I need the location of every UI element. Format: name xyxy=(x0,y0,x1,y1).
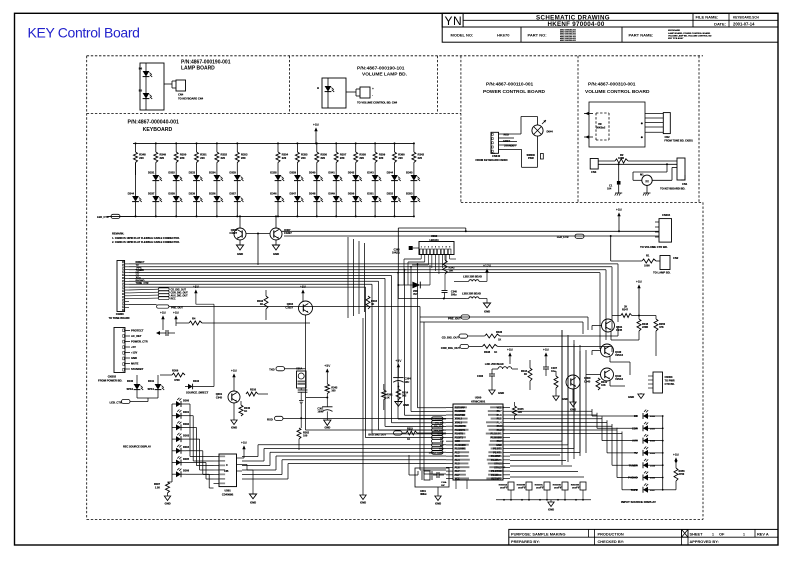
svg-text:GND: GND xyxy=(273,252,279,256)
connector CN201 from tone bd xyxy=(663,113,670,134)
svg-text:R338: R338 xyxy=(484,351,491,354)
svg-text:220: 220 xyxy=(418,156,423,160)
ground mid bundle xyxy=(362,318,364,495)
svg-text:CN2: CN2 xyxy=(673,256,679,260)
svg-text:220: 220 xyxy=(359,156,364,160)
matrix column R349 xyxy=(155,142,157,144)
U300 pin L12 xyxy=(446,448,453,450)
ground Q301 xyxy=(233,403,235,420)
svg-text:P3.7: P3.7 xyxy=(455,474,461,477)
svg-text:100u: 100u xyxy=(451,294,457,297)
svg-text:FROM POWER BD.: FROM POWER BD. xyxy=(98,379,122,383)
capacitor C360 xyxy=(409,246,413,250)
svg-text:TO LAMP BD.: TO LAMP BD. xyxy=(653,271,671,275)
svg-text:GND: GND xyxy=(325,426,331,430)
svg-text:FROM TONE BD. CN201: FROM TONE BD. CN201 xyxy=(664,140,693,143)
svg-text:Q301: Q301 xyxy=(216,392,223,396)
svg-text:1: 1 xyxy=(712,532,714,536)
rec display left rail xyxy=(171,404,173,482)
svg-text:3: 3 xyxy=(428,247,429,249)
svg-text:P/N:4867-000110-001: P/N:4867-000110-001 xyxy=(486,82,534,88)
svg-text:FROM KEYBOARD CN300: FROM KEYBOARD CN300 xyxy=(476,158,509,162)
svg-text:L303 25R BEAD: L303 25R BEAD xyxy=(462,292,481,295)
svg-text:P3.7: P3.7 xyxy=(497,440,503,443)
LED D301 rec display xyxy=(172,415,176,417)
matrix column R358 xyxy=(355,142,357,144)
LED D328 xyxy=(275,175,282,181)
transistor Q307 xyxy=(270,228,282,240)
svg-text:GND: GND xyxy=(455,440,461,443)
connector CN3 volume left xyxy=(590,159,598,170)
bus wires right of U300 xyxy=(510,410,592,412)
svg-text:P3.1/TXD: P3.1/TXD xyxy=(455,414,466,417)
svg-text:L302 25R BEAD: L302 25R BEAD xyxy=(463,276,482,279)
vertical bundle mid trio xyxy=(561,330,563,465)
U300 pin R14 xyxy=(503,455,510,457)
LED D329 xyxy=(294,175,301,181)
CN302 pin MUTE xyxy=(125,363,130,365)
svg-text:-: - xyxy=(372,93,373,97)
svg-text:AT89C2051: AT89C2051 xyxy=(471,399,486,403)
svg-text:1K: 1K xyxy=(260,303,263,306)
U300 pin R9 xyxy=(503,436,510,438)
title block bottom xyxy=(509,529,778,545)
svg-text:+5V: +5V xyxy=(160,311,167,315)
svg-text:+5V: +5V xyxy=(173,311,180,315)
svg-text:1. CN300 IS 16PIN FLAT FLEXIBL: 1. CN300 IS 16PIN FLAT FLEXIBLE CABLE CO… xyxy=(112,237,180,240)
svg-text:1K: 1K xyxy=(371,303,374,306)
U300 pin L17 xyxy=(446,466,453,468)
svg-text:CDR_DIG_OUT: CDR_DIG_OUT xyxy=(441,346,461,350)
svg-text:M1: M1 xyxy=(640,173,644,176)
wire crystal to U300 xyxy=(417,471,419,475)
LED D352 xyxy=(391,196,398,202)
title block top xyxy=(442,13,778,42)
CN300 pin stubs xyxy=(125,263,129,265)
transistor Q300 xyxy=(566,375,580,389)
IC U301 CD4069B xyxy=(219,454,237,487)
file name box xyxy=(692,13,694,27)
matrix column R354 xyxy=(277,142,279,144)
resistor R306 xyxy=(172,373,185,377)
svg-text:D337: D337 xyxy=(148,191,155,195)
svg-text:REMARK:: REMARK: xyxy=(112,232,124,236)
U300 pin L3 xyxy=(446,414,453,416)
svg-text:CD_DIG_OUT: CD_DIG_OUT xyxy=(442,336,460,340)
svg-text:OF: OF xyxy=(719,531,725,536)
svg-text:CN4: CN4 xyxy=(178,93,184,97)
svg-text:P1.1/AIN1: P1.1/AIN1 xyxy=(491,433,503,436)
svg-text:1K: 1K xyxy=(524,373,527,376)
pot dashed box VR xyxy=(595,113,597,140)
CN302 pin POWER_CTR xyxy=(125,341,130,343)
svg-text:CN303: CN303 xyxy=(665,376,673,379)
transistor Q306 xyxy=(234,228,246,240)
wires power connector xyxy=(499,133,522,135)
U300 pin L20 xyxy=(446,478,453,480)
resistor R336 xyxy=(485,334,500,338)
svg-text:VOLUME CONTROL BOARD: VOLUME CONTROL BOARD xyxy=(585,89,650,95)
U300 pin R11 xyxy=(503,444,510,446)
U300 pin L6 xyxy=(446,425,453,427)
U300 pin R5 xyxy=(503,421,510,423)
wires U302 pins down xyxy=(420,255,422,260)
svg-text:2001-07-14: 2001-07-14 xyxy=(733,22,755,27)
LED D347 xyxy=(294,196,301,202)
U300 pin L14 xyxy=(446,455,453,457)
connector CN303 to pwr ctr bd xyxy=(653,372,663,393)
capacitor C30B xyxy=(436,472,438,478)
svg-text:+5V: +5V xyxy=(673,453,680,457)
wire matrix to Q307 xyxy=(275,216,277,228)
svg-text:TO PWR: TO PWR xyxy=(665,380,675,383)
svg-text:1: 1 xyxy=(743,532,745,536)
svg-text:D327: D327 xyxy=(230,191,237,195)
LED D353 xyxy=(411,196,418,202)
svg-text:DIGIT 2: DIGIT 2 xyxy=(518,488,526,490)
svg-text:TONE_CTR: TONE_CTR xyxy=(136,282,149,285)
matrix column R342 xyxy=(413,142,415,144)
lamp D644 xyxy=(532,125,543,136)
bus wires right of U300 lower xyxy=(510,454,560,456)
svg-text:INPUT SOURCE DISPLAY: INPUT SOURCE DISPLAY xyxy=(621,500,656,504)
svg-text:KEYBOARD: KEYBOARD xyxy=(668,29,680,32)
svg-text:220: 220 xyxy=(241,156,246,160)
svg-text:D302: D302 xyxy=(183,423,190,426)
svg-text:220: 220 xyxy=(180,156,185,160)
svg-text:R347: R347 xyxy=(622,309,629,312)
U300 pin R16 xyxy=(503,463,510,465)
svg-text:LED_CTR: LED_CTR xyxy=(557,236,569,239)
wire junction down xyxy=(257,234,259,266)
svg-text:+5V: +5V xyxy=(131,345,136,349)
svg-text:CN2: CN2 xyxy=(665,136,671,139)
capacitor C30A reset xyxy=(297,371,307,388)
svg-text:D306: D306 xyxy=(183,470,190,473)
svg-text:KEYBOARD: KEYBOARD xyxy=(143,127,173,133)
svg-text:220: 220 xyxy=(321,156,326,160)
ground U301 xyxy=(249,494,256,499)
svg-text:TXD: TXD xyxy=(269,368,274,372)
svg-text:220: 220 xyxy=(379,156,384,160)
bus wires CN300 to MCU staircase xyxy=(129,263,618,265)
matrix column R353 xyxy=(236,142,238,144)
svg-text:KB300C: KB300C xyxy=(535,485,544,487)
svg-text:X30A: X30A xyxy=(296,367,302,370)
svg-text:FILE NAME:: FILE NAME: xyxy=(696,15,719,20)
LED D306 rec display xyxy=(172,473,176,475)
ground Q306 xyxy=(239,240,241,245)
svg-text:P3.0/RXD: P3.0/RXD xyxy=(455,410,466,413)
transistor Q342 xyxy=(601,368,614,381)
svg-text:U300: U300 xyxy=(475,396,482,400)
svg-text:D334: D334 xyxy=(209,170,216,174)
LED D305 rec display xyxy=(172,462,176,464)
svg-text:R1: R1 xyxy=(646,254,650,258)
transistor Q304 xyxy=(299,301,313,315)
U300 pin L2 xyxy=(446,410,453,412)
svg-text:XTAL1: XTAL1 xyxy=(494,463,502,466)
wire U301 right down xyxy=(242,464,247,466)
svg-text:KEYBOARD.SCH: KEYBOARD.SCH xyxy=(733,15,760,19)
U300 pin L10 xyxy=(446,440,453,442)
svg-text:SOURCE_DIRECT: SOURCE_DIRECT xyxy=(186,390,209,394)
svg-text:P3.3/INT1: P3.3/INT1 xyxy=(491,455,502,458)
svg-text:TO TONE BOARD: TO TONE BOARD xyxy=(109,317,130,320)
LED D346 xyxy=(275,196,282,202)
ground Q300 xyxy=(572,389,574,402)
svg-text:C30A: C30A xyxy=(441,481,447,484)
svg-text:P/N:4867-000310-001: P/N:4867-000310-001 xyxy=(588,82,636,88)
CN302 pin +12V xyxy=(125,352,130,354)
svg-text:D348: D348 xyxy=(309,191,316,195)
ground L303 xyxy=(486,299,488,304)
LED D302 rec display xyxy=(172,426,176,428)
svg-text:P3.4/T0: P3.4/T0 xyxy=(455,433,464,436)
svg-text:+5V: +5V xyxy=(616,208,623,212)
matrix column R357 xyxy=(335,142,337,144)
CN302 pin GND xyxy=(125,357,130,359)
svg-text:D343: D343 xyxy=(367,170,374,174)
svg-text:P3.5/T1: P3.5/T1 xyxy=(455,436,464,439)
svg-text:DIGIT 3: DIGIT 3 xyxy=(536,488,544,490)
resistor R301 xyxy=(382,390,386,400)
svg-text:TO KEYBOARD BD.: TO KEYBOARD BD. xyxy=(660,187,685,191)
svg-text:P1.2: P1.2 xyxy=(497,429,503,432)
svg-text:+5V: +5V xyxy=(543,348,550,352)
svg-text:47K: 47K xyxy=(659,326,664,329)
svg-text:+: + xyxy=(372,87,374,91)
resistor R343 xyxy=(325,384,329,394)
LED D338 xyxy=(173,196,180,202)
svg-text:D6: D6 xyxy=(139,67,143,71)
svg-text:CN640: CN640 xyxy=(492,154,501,158)
pot wiper arrows xyxy=(584,113,593,115)
svg-text:D344: D344 xyxy=(387,170,394,174)
svg-text:+5V: +5V xyxy=(193,285,200,289)
matrix bottom bus wire xyxy=(107,215,414,217)
svg-text:KB300A: KB300A xyxy=(499,484,508,487)
capacitor C310 xyxy=(165,330,167,336)
U300 pin L1 xyxy=(446,407,453,409)
U300 pin R15 xyxy=(503,459,510,461)
LED D304 rec display xyxy=(172,450,176,452)
resistor R304 mid xyxy=(366,296,370,309)
crystal circuit box xyxy=(415,468,449,487)
svg-text:P1.7: P1.7 xyxy=(497,410,503,413)
LED D300 rec display xyxy=(172,403,176,405)
svg-text:D342: D342 xyxy=(348,170,355,174)
svg-text:1: 1 xyxy=(421,247,422,249)
LED D341 SPK1 xyxy=(155,384,162,390)
resistor R338 xyxy=(482,344,497,348)
key part KB300E xyxy=(580,482,586,490)
resistor R2 volume xyxy=(615,159,628,163)
U300 pin L9 xyxy=(446,436,453,438)
svg-text:CN304: CN304 xyxy=(662,213,671,217)
wire source_direct riser xyxy=(213,304,215,386)
svg-text:100U: 100U xyxy=(317,411,323,414)
matrix column R356 xyxy=(316,142,318,144)
svg-text:220: 220 xyxy=(160,156,165,160)
ground C306 xyxy=(489,390,495,395)
CN302 pin AC_DET xyxy=(125,335,130,337)
svg-text:220: 220 xyxy=(200,156,205,160)
svg-text:+5V: +5V xyxy=(231,369,238,373)
svg-text:P1.1/AIN1: P1.1/AIN1 xyxy=(455,448,467,451)
svg-text:D341: D341 xyxy=(328,170,335,174)
ground trio xyxy=(640,393,642,394)
svg-text:C945: C945 xyxy=(216,395,223,399)
wire Q306 base to Q307 base xyxy=(246,233,270,235)
svg-text:REC: REC xyxy=(171,297,176,300)
svg-text:VOLUME LAMP BD, VOLUME CONTROL: VOLUME LAMP BD, VOLUME CONTROL BD xyxy=(668,34,712,37)
LED D332 xyxy=(173,175,180,181)
CN302 pin +5V xyxy=(125,346,130,348)
svg-text:CHECKED BY:: CHECKED BY: xyxy=(598,539,625,544)
svg-text:GND: GND xyxy=(562,397,568,401)
svg-text:30P: 30P xyxy=(441,485,445,487)
LED D339 xyxy=(193,196,200,202)
svg-text:P1.5: P1.5 xyxy=(497,418,503,421)
svg-text:220: 220 xyxy=(301,156,306,160)
U300 pin R10 xyxy=(503,440,510,442)
svg-text:V2SC2: V2SC2 xyxy=(615,354,624,357)
svg-text:GND: GND xyxy=(498,391,504,395)
svg-text:PART NO:: PART NO: xyxy=(528,33,547,38)
LED D348 xyxy=(313,196,320,202)
svg-text:GND: GND xyxy=(165,502,171,506)
svg-text:HKENF 970004-00: HKENF 970004-00 xyxy=(547,21,604,28)
LED D349 xyxy=(333,196,340,202)
svg-text:POWER CONTROL BOARD: POWER CONTROL BOARD xyxy=(483,89,546,95)
lamp diode D7 xyxy=(325,86,332,92)
svg-text:2K: 2K xyxy=(624,306,627,309)
LED D336 xyxy=(132,196,139,202)
U300 pin L15 xyxy=(446,459,453,461)
svg-text:+5V: +5V xyxy=(507,348,514,352)
svg-text:AC_DET: AC_DET xyxy=(131,334,142,338)
svg-text:YN: YN xyxy=(445,14,463,28)
svg-text:VOLUME LAMP BD.: VOLUME LAMP BD. xyxy=(362,72,407,78)
svg-text:100: 100 xyxy=(518,411,523,414)
svg-text:1K: 1K xyxy=(244,410,247,413)
svg-text:REV A: REV A xyxy=(757,531,769,536)
connector CN1 to keyboard bd xyxy=(677,158,685,180)
kb row wire xyxy=(455,480,457,489)
svg-text:D351: D351 xyxy=(367,191,374,195)
svg-text:HK670: HK670 xyxy=(497,33,510,38)
motor M1 xyxy=(642,175,652,185)
svg-text:100: 100 xyxy=(303,435,308,438)
transistor Q340 xyxy=(601,344,614,357)
resistor R320 xyxy=(189,321,202,325)
svg-text:PROTECT: PROTECT xyxy=(131,329,144,333)
capacitor C1 volume xyxy=(618,164,620,181)
svg-text:4MHz: 4MHz xyxy=(420,493,427,496)
svg-text:XTAL2: XTAL2 xyxy=(455,418,463,421)
input source staircase wires xyxy=(591,409,593,416)
ground crystal xyxy=(437,487,439,496)
U300 pin L8 xyxy=(446,433,453,435)
svg-text:R315: R315 xyxy=(407,428,413,431)
svg-text:D352: D352 xyxy=(387,191,394,195)
svg-text:DIGIT 1: DIGIT 1 xyxy=(500,488,508,490)
svg-text:CTR BD.: CTR BD. xyxy=(665,383,675,386)
svg-text:U301: U301 xyxy=(225,489,232,493)
svg-text:KEY Control Board: KEY Control Board xyxy=(28,24,140,40)
svg-text:P1.3: P1.3 xyxy=(497,425,503,428)
capacitor C304 xyxy=(393,377,403,379)
svg-text:D349: D349 xyxy=(328,191,335,195)
svg-text:+5V: +5V xyxy=(395,359,402,363)
wires motor xyxy=(633,179,642,181)
resistor R315 xyxy=(406,431,417,435)
LED D350 xyxy=(352,196,359,202)
LED D340 SPK2 xyxy=(134,384,141,390)
capacitor C307 xyxy=(543,366,549,368)
LED D303 rec display xyxy=(172,438,176,440)
U300 pin R13 xyxy=(503,451,510,453)
svg-text:SHEET: SHEET xyxy=(690,531,704,536)
U300 pin L7 xyxy=(446,429,453,431)
LED D333 xyxy=(193,175,200,181)
junction dot LED_CTR branch xyxy=(610,235,612,237)
bus wires U301 to U300 xyxy=(242,456,258,458)
svg-text:50KBx2: 50KBx2 xyxy=(596,127,606,130)
resistor R345 xyxy=(513,406,517,416)
resistor R356 xyxy=(674,468,678,481)
svg-text:PART NAME:: PART NAME: xyxy=(629,33,654,38)
svg-text:PURPOSE: SAMPLE MAKING: PURPOSE: SAMPLE MAKING xyxy=(511,531,565,536)
wire pre_out feed xyxy=(169,306,420,308)
wires volume pot to CN201 xyxy=(645,113,663,115)
svg-text:P3.5/T1: P3.5/T1 xyxy=(493,448,502,451)
svg-text:D326: D326 xyxy=(209,191,216,195)
svg-text:D301: D301 xyxy=(183,411,190,414)
LED D342 xyxy=(352,175,359,181)
svg-text:9: 9 xyxy=(449,247,450,249)
ground R307 xyxy=(167,493,169,496)
svg-text:220: 220 xyxy=(340,156,345,160)
capacitor C306 xyxy=(489,373,495,375)
svg-text:+5V: +5V xyxy=(300,285,307,289)
U300 pin R6 xyxy=(503,425,510,427)
svg-text:D340: D340 xyxy=(309,170,316,174)
resistor R347 xyxy=(621,314,632,318)
U300 pin R7 xyxy=(503,429,510,431)
svg-text:220R: 220R xyxy=(642,326,648,329)
volume lamp board outline xyxy=(322,78,346,108)
svg-text:D332: D332 xyxy=(168,170,175,174)
svg-text:P1.5: P1.5 xyxy=(455,463,461,466)
LED D334 xyxy=(214,175,221,181)
svg-text:LAMP BOARD, POWER CONTROL BOAR: LAMP BOARD, POWER CONTROL BOARD xyxy=(668,32,711,35)
U300 pin R19 xyxy=(503,474,510,476)
svg-text:D344: D344 xyxy=(128,191,135,195)
wires volume lower xyxy=(598,160,615,162)
matrix column R355 xyxy=(296,142,298,144)
svg-text:2: 2 xyxy=(424,247,425,249)
svg-text:P1.2: P1.2 xyxy=(455,451,461,454)
svg-text:10K: 10K xyxy=(601,384,606,387)
svg-text:R4: R4 xyxy=(192,317,196,321)
ground R314 xyxy=(395,402,402,407)
svg-text:220: 220 xyxy=(221,156,226,160)
svg-text:+5V: +5V xyxy=(241,441,248,445)
U300 pin R8 xyxy=(503,433,510,435)
U300 pin L16 xyxy=(446,463,453,465)
